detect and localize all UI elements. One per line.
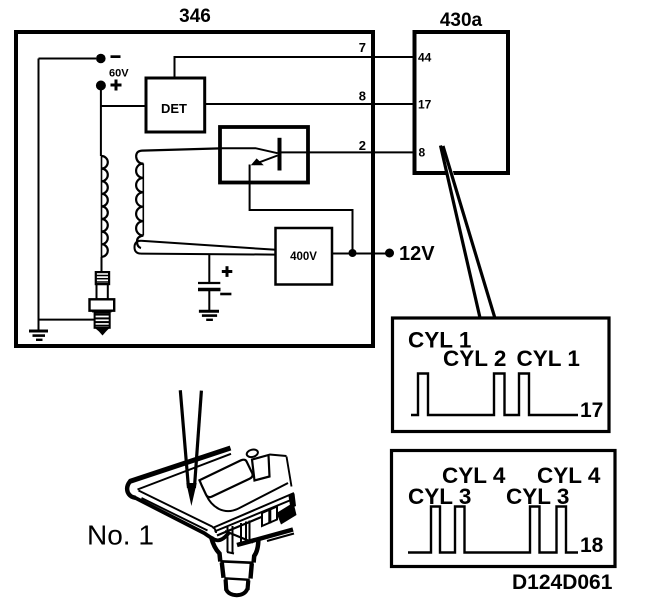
gasket swoosh below recess bbox=[207, 483, 289, 511]
bracket band lines bbox=[215, 499, 295, 532]
node 12V terminal dot bbox=[385, 249, 394, 258]
svg-text:17: 17 bbox=[580, 399, 603, 422]
svg-text:44: 44 bbox=[418, 51, 432, 65]
wire emitter to 12V junction bbox=[250, 165, 353, 253]
capacitor C1 bbox=[198, 255, 232, 311]
plate surface lower-left edge bbox=[139, 491, 217, 534]
igniter power transistor Q1 bbox=[220, 127, 308, 183]
wire plus rail to DET input bbox=[101, 105, 146, 107]
plate thick bottom edge and curl bbox=[134, 497, 229, 540]
DET block U1 bbox=[146, 78, 205, 132]
svg-text:400V: 400V bbox=[290, 251, 317, 263]
wire 2 (igniter collector to pin 8) bbox=[282, 151, 415, 153]
wire 8 (DET out to pin 17) bbox=[205, 103, 414, 105]
plate top-right edge bbox=[270, 455, 287, 457]
svg-text:60V: 60V bbox=[109, 68, 129, 80]
recess on plate bbox=[200, 460, 253, 497]
primary winding L1 bbox=[136, 148, 220, 248]
plate lower-right edge bbox=[213, 493, 295, 528]
pointer needle No.1 bbox=[180, 390, 201, 506]
ground symbol left bbox=[29, 331, 48, 340]
svg-text:DET: DET bbox=[161, 101, 187, 116]
svg-text:CYL 3: CYL 3 bbox=[506, 484, 569, 509]
wire from left rail to minus dot bbox=[39, 58, 97, 60]
node plus terminal dot bbox=[96, 80, 122, 91]
svg-text:12V: 12V bbox=[399, 243, 435, 265]
callout pointer from pin 8 to waveform bbox=[441, 146, 496, 322]
wire 7 (DET top to pin 44) bbox=[175, 57, 415, 78]
svg-text:2: 2 bbox=[359, 138, 366, 153]
bracket dark right nub bbox=[289, 494, 297, 509]
ground symbol capacitor bbox=[199, 311, 219, 320]
waveform box pin 17 bbox=[393, 318, 610, 432]
svg-text:CYL 1: CYL 1 bbox=[517, 346, 580, 371]
svg-text:CYL 2: CYL 2 bbox=[443, 346, 506, 371]
svg-text:D124D061: D124D061 bbox=[512, 571, 613, 594]
bracket thick lower band bbox=[237, 530, 293, 546]
bracket dark right cap bbox=[277, 503, 297, 525]
svg-text:CYL 3: CYL 3 bbox=[408, 484, 471, 509]
plate top-left thick edge bbox=[130, 448, 231, 482]
DC-DC converter 400V bbox=[276, 228, 333, 285]
svg-text:7: 7 bbox=[359, 40, 366, 55]
svg-text:8: 8 bbox=[359, 89, 366, 104]
svg-text:8: 8 bbox=[419, 146, 426, 160]
ECU box 430a bbox=[415, 32, 509, 173]
west corner hook bbox=[127, 481, 135, 498]
svg-text:18: 18 bbox=[580, 534, 604, 557]
svg-text:346: 346 bbox=[179, 6, 211, 27]
wire left ground rail bbox=[38, 59, 40, 331]
boot mid cylinder bbox=[220, 561, 253, 563]
svg-text:17: 17 bbox=[418, 98, 432, 112]
junction dot emitter/12V bbox=[349, 249, 357, 257]
boot flange bbox=[211, 537, 258, 563]
secondary winding L2 bbox=[102, 156, 108, 257]
node minus terminal dot bbox=[96, 54, 121, 64]
boot lower cylinder bbox=[224, 578, 249, 580]
wire plus dot down to secondary coil bbox=[100, 86, 102, 157]
svg-text:430a: 430a bbox=[440, 10, 483, 31]
wire ground to spark plug shell bbox=[39, 319, 95, 321]
wire tapered primary to 400V converter bbox=[135, 241, 277, 255]
ignition coil illustration bbox=[127, 448, 296, 595]
waveform box pin 18 bbox=[392, 451, 616, 567]
boot bottom cap bbox=[226, 589, 247, 595]
spark plug P1 bbox=[90, 272, 115, 335]
connector box bbox=[252, 455, 270, 481]
ribs bbox=[227, 527, 229, 552]
white slot pair bbox=[262, 507, 277, 527]
module box 346 bbox=[16, 32, 373, 346]
svg-text:No. 1: No. 1 bbox=[87, 520, 154, 551]
wire 400V output to 12V terminal bbox=[332, 253, 387, 255]
wire coil to spark plug bbox=[101, 257, 103, 272]
